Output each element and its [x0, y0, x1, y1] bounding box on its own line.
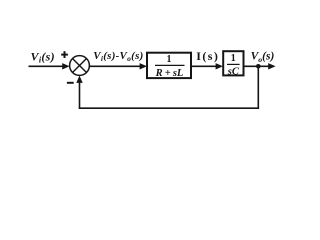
wire feedback bottom horizontal [79, 107, 259, 109]
node Vi(s) input label [31, 49, 55, 64]
node Vi(s)-Vo(s) label [93, 50, 143, 63]
svg-text:1: 1 [231, 53, 236, 64]
wire output [244, 63, 276, 69]
wire input [29, 63, 70, 69]
svg-text:1: 1 [167, 54, 172, 65]
plus sign [61, 51, 68, 58]
svg-text:R + sL: R + sL [155, 68, 184, 79]
svg-text:sC: sC [227, 66, 240, 77]
wire block G1 to block G2 [192, 63, 223, 69]
svg-text:Vi(s)-Vo(s): Vi(s)-Vo(s) [93, 50, 143, 63]
wire feedback up into summing junction [76, 76, 82, 109]
minus sign [67, 82, 74, 84]
takeoff junction dot [256, 64, 261, 69]
svg-text:Vi(s): Vi(s) [31, 49, 55, 64]
block G2 1/(sC) [223, 51, 243, 77]
node Vo(s) label [251, 51, 275, 64]
wire summing junction to block G1 [90, 63, 147, 69]
svg-text:Vo(s): Vo(s) [251, 51, 275, 64]
wire feedback down from takeoff [257, 66, 259, 108]
summing junction [70, 56, 90, 76]
node I(s) label [196, 49, 219, 63]
svg-text:I(s): I(s) [196, 49, 219, 63]
block G1 1/(R+sL) [147, 53, 191, 79]
